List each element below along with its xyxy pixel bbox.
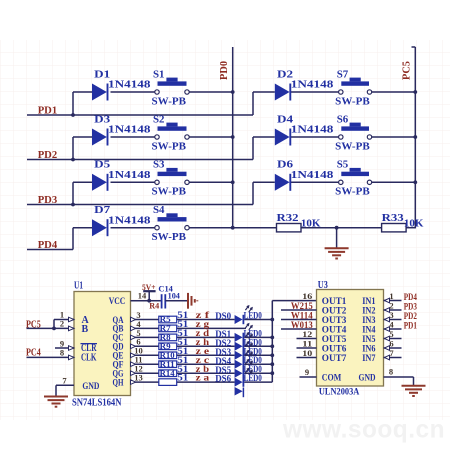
pin 9 <box>60 338 74 350</box>
svg-text:VCC: VCC <box>109 297 126 307</box>
svg-text:U1: U1 <box>74 281 83 292</box>
resistor R7 <box>159 319 189 333</box>
svg-text:PD4: PD4 <box>404 293 417 303</box>
svg-text:QH: QH <box>113 378 124 388</box>
svg-text:S5: S5 <box>337 159 349 171</box>
svg-text:51: 51 <box>177 373 189 383</box>
svg-text:R33: R33 <box>382 212 405 224</box>
svg-text:SW-PB: SW-PB <box>335 96 370 107</box>
wire <box>281 309 317 311</box>
node PC5 junctions <box>413 90 417 184</box>
svg-text:8: 8 <box>389 367 393 377</box>
wire <box>131 353 273 358</box>
wire C14 to ground <box>165 300 188 302</box>
svg-text:D1: D1 <box>94 68 110 80</box>
wire <box>384 317 402 322</box>
svg-text:SW-PB: SW-PB <box>335 141 370 152</box>
svg-text:CLK: CLK <box>81 353 97 364</box>
svg-text:SW-PB: SW-PB <box>335 187 370 198</box>
LED tail artifact <box>235 387 244 397</box>
svg-text:16: 16 <box>302 291 312 301</box>
wire to ground <box>336 228 338 248</box>
svg-text:PD1: PD1 <box>404 321 417 331</box>
svg-text:1N4148: 1N4148 <box>108 215 151 226</box>
svg-text:IN4: IN4 <box>362 325 376 335</box>
svg-text:SW-PB: SW-PB <box>152 96 187 107</box>
diode D2 <box>275 68 334 100</box>
diode D4 <box>275 113 334 145</box>
diode D1 <box>92 68 151 100</box>
svg-text:S2: S2 <box>153 113 165 125</box>
wire PC5 to pins 1,2 <box>27 320 75 329</box>
svg-text:OUT7: OUT7 <box>322 354 347 364</box>
svg-text:6: 6 <box>389 339 393 349</box>
ground U3 <box>402 386 426 396</box>
diode D3 <box>92 113 151 145</box>
svg-text:PC4: PC4 <box>26 348 41 359</box>
resistor R10 <box>159 346 189 360</box>
svg-text:D7: D7 <box>94 204 111 216</box>
svg-text:SW-PB: SW-PB <box>152 187 187 198</box>
wire <box>290 136 415 138</box>
wire row4 to resistors <box>233 227 416 229</box>
svg-text:1N4148: 1N4148 <box>291 125 334 136</box>
svg-text:PC5: PC5 <box>26 319 41 330</box>
resistor R8 <box>159 328 189 342</box>
svg-text:S3: S3 <box>153 159 165 171</box>
svg-text:z a: z a <box>196 373 210 383</box>
pin 9 stub wire <box>55 347 74 349</box>
node PD3 junction <box>71 203 75 207</box>
node PD1 junction <box>71 113 75 117</box>
wire <box>384 308 402 313</box>
svg-text:OUT5: OUT5 <box>322 335 347 345</box>
svg-text:D5: D5 <box>94 159 111 171</box>
svg-text:D6: D6 <box>277 159 294 171</box>
op-amp U3 ULN2003A body <box>317 280 384 398</box>
wire <box>131 317 273 322</box>
svg-text:IN2: IN2 <box>362 306 376 316</box>
svg-text:OUT1: OUT1 <box>322 297 347 307</box>
wire <box>384 327 402 332</box>
svg-text:IN7: IN7 <box>362 354 376 364</box>
LED DS2 <box>215 332 262 351</box>
wire <box>297 338 317 340</box>
wire <box>290 91 415 93</box>
svg-text:PC5: PC5 <box>401 61 412 80</box>
node PC5 junction <box>52 327 56 331</box>
wire PD3 row <box>27 182 275 204</box>
svg-text:PD3: PD3 <box>404 302 417 312</box>
switch S1 <box>152 68 190 107</box>
LED DS0 <box>215 305 262 324</box>
svg-text:R4: R4 <box>149 301 160 311</box>
svg-text:LED0: LED0 <box>244 312 262 322</box>
resistor R <box>159 373 189 386</box>
svg-text:PD4: PD4 <box>38 239 58 251</box>
resistor R32 <box>277 212 322 232</box>
svg-text:9: 9 <box>305 367 309 377</box>
svg-text:1N4148: 1N4148 <box>108 80 151 91</box>
ground <box>325 248 349 258</box>
resistor R14 <box>159 364 189 378</box>
svg-text:B: B <box>82 324 89 335</box>
wire <box>131 362 273 367</box>
svg-text:5: 5 <box>389 329 393 339</box>
wire <box>73 181 233 183</box>
ground U1 <box>44 397 68 407</box>
LED DS1 <box>215 323 262 342</box>
svg-text:SW-PB: SW-PB <box>152 232 187 243</box>
svg-text:R32: R32 <box>277 212 300 224</box>
wire <box>384 355 402 360</box>
svg-text:IN5: IN5 <box>362 335 376 345</box>
svg-text:U3: U3 <box>318 280 328 291</box>
svg-text:1N4148: 1N4148 <box>291 170 334 181</box>
svg-text:COM: COM <box>322 373 342 383</box>
wire pin 8 to ground <box>384 377 414 386</box>
wire <box>384 336 402 341</box>
wire PC4 to pin 8 <box>27 356 75 358</box>
node bus junctions <box>270 318 274 376</box>
svg-text:OUT6: OUT6 <box>322 344 347 354</box>
svg-text:1N4148: 1N4148 <box>108 170 151 181</box>
wire PD2 row <box>27 137 275 160</box>
wire PD1 row <box>27 92 275 115</box>
pin 8 <box>60 348 74 360</box>
svg-text:D3: D3 <box>94 113 111 125</box>
wire <box>290 181 415 183</box>
svg-text:ULN2003A: ULN2003A <box>319 388 360 398</box>
wire <box>297 347 317 349</box>
wire <box>131 344 273 349</box>
diode D7 <box>92 204 151 236</box>
wire <box>281 328 317 330</box>
wire <box>131 335 273 340</box>
svg-text:SW-PB: SW-PB <box>152 141 187 152</box>
svg-text:10K: 10K <box>404 218 424 229</box>
svg-text:IN3: IN3 <box>362 316 376 326</box>
LED DS4 <box>215 350 262 369</box>
svg-text:PD0: PD0 <box>219 61 230 80</box>
svg-text:PD1: PD1 <box>38 105 58 117</box>
svg-text:IN1: IN1 <box>362 297 376 307</box>
wire <box>73 227 233 229</box>
wire <box>384 346 402 351</box>
resistor R11 <box>159 355 189 369</box>
svg-text:S7: S7 <box>337 68 349 80</box>
node PD0 junctions <box>231 90 235 230</box>
wire <box>297 357 317 359</box>
wire LED cathode bus <box>272 301 316 383</box>
node PD2 junction <box>71 158 75 162</box>
svg-text:10K: 10K <box>301 218 321 229</box>
svg-text:2: 2 <box>60 319 64 329</box>
wire <box>384 298 402 303</box>
svg-text:DS6: DS6 <box>215 375 231 385</box>
svg-text:S1: S1 <box>153 68 165 80</box>
wire <box>131 371 273 376</box>
resistor R33 <box>382 212 425 232</box>
svg-text:1N4148: 1N4148 <box>108 125 151 136</box>
wire <box>73 136 233 138</box>
net PC5 vertical wire <box>412 47 416 228</box>
svg-text:1N4148: 1N4148 <box>291 80 334 91</box>
ground C14 (rotated) <box>188 293 197 309</box>
svg-text:IN6: IN6 <box>362 344 376 354</box>
wire <box>73 91 233 93</box>
svg-text:10: 10 <box>302 348 312 358</box>
svg-text:W114: W114 <box>291 311 313 321</box>
wire pin 7 to ground <box>56 385 74 396</box>
svg-text:D2: D2 <box>277 68 294 80</box>
diode D5 <box>92 159 151 191</box>
svg-text:D4: D4 <box>277 113 294 125</box>
switch S5 <box>335 159 371 198</box>
svg-text:LED0: LED0 <box>244 374 262 384</box>
wire <box>281 319 317 321</box>
wire COM pin 9 <box>300 376 317 378</box>
power 5V+ <box>142 282 156 303</box>
svg-text:2: 2 <box>389 301 393 311</box>
wire pin 14 <box>131 300 161 302</box>
capacitor C14 <box>149 284 180 311</box>
diode D6 <box>275 159 334 191</box>
op-amp U1 SN74LS164N body <box>72 281 131 409</box>
svg-text:OUT2: OUT2 <box>322 306 347 316</box>
resistor R9 <box>159 337 189 351</box>
LED DS5 <box>215 359 262 378</box>
svg-text:PD3: PD3 <box>38 194 58 206</box>
switch S7 <box>335 68 371 107</box>
svg-text:3: 3 <box>389 310 393 320</box>
svg-text:1: 1 <box>389 291 393 301</box>
switch S3 <box>152 159 190 198</box>
svg-text:PD2: PD2 <box>38 149 58 161</box>
wire <box>131 380 273 385</box>
switch S2 <box>152 113 190 152</box>
svg-text:www.sooq.cn: www.sooq.cn <box>282 416 445 444</box>
LED DS6 <box>215 368 262 387</box>
wire PD4 row <box>27 228 73 250</box>
svg-text:W215: W215 <box>291 302 313 312</box>
pin 2 <box>60 319 74 331</box>
LED DS3 <box>215 341 262 360</box>
svg-text:OUT3: OUT3 <box>322 316 347 326</box>
node R32-R33 junction <box>335 226 339 230</box>
switch S6 <box>335 113 371 152</box>
svg-text:11: 11 <box>302 339 312 349</box>
svg-text:5V+: 5V+ <box>142 282 156 292</box>
svg-text:8: 8 <box>60 348 64 358</box>
svg-text:SN74LS164N: SN74LS164N <box>72 397 122 408</box>
svg-text:DS0: DS0 <box>215 312 231 322</box>
net PD0 vertical wire <box>232 47 234 228</box>
svg-text:12: 12 <box>302 329 312 339</box>
svg-text:GND: GND <box>359 373 376 383</box>
pin 1 <box>60 310 74 322</box>
svg-text:GND: GND <box>82 382 99 392</box>
svg-text:R14: R14 <box>160 368 176 378</box>
wire <box>131 326 247 331</box>
svg-text:PD2: PD2 <box>404 312 417 322</box>
switch S4 <box>152 204 190 243</box>
svg-text:S6: S6 <box>337 113 349 125</box>
svg-text:104: 104 <box>168 291 180 300</box>
svg-text:13: 13 <box>134 373 143 383</box>
svg-text:S4: S4 <box>153 204 165 216</box>
resistor R5 <box>159 310 189 324</box>
svg-text:OUT4: OUT4 <box>322 325 347 335</box>
